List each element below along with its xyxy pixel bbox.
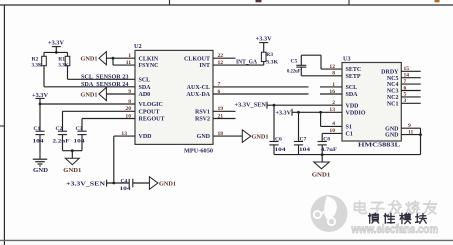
wire C2-C3 ground rail <box>63 150 83 152</box>
svg-text:GND: GND <box>33 168 48 174</box>
capacitor C6 104 <box>269 105 285 154</box>
svg-text:+3.3V: +3.3V <box>256 37 273 43</box>
wire +3.3V to resistors <box>44 51 68 53</box>
wire INT pin12 to INT_GA <box>213 64 264 66</box>
svg-text:SETC: SETC <box>346 67 362 73</box>
wire U3 SDA pin16 stub <box>320 93 342 95</box>
wire VLOGIC pin8 <box>40 103 135 105</box>
svg-text:C6: C6 <box>275 137 282 143</box>
wire DRDY pin15 stub <box>401 70 420 72</box>
capacitor C3 104 <box>74 119 87 151</box>
svg-text:SDA: SDA <box>346 92 359 98</box>
svg-text:GND1: GND1 <box>81 57 98 63</box>
svg-text:MPU-6050: MPU-6050 <box>184 148 213 154</box>
node junction S1 branch <box>319 111 322 114</box>
svg-text:R3: R3 <box>266 52 273 58</box>
IC U3 HMC5883L <box>329 56 413 149</box>
svg-text:GND1: GND1 <box>312 172 331 178</box>
wire CLKIN pin1 <box>113 57 135 59</box>
capacitor C5 0.22uF <box>287 58 306 74</box>
svg-text:+3.3V: +3.3V <box>48 40 65 46</box>
svg-text:C7: C7 <box>300 137 307 143</box>
svg-text:C4: C4 <box>121 178 128 184</box>
svg-text:C8: C8 <box>323 137 330 143</box>
svg-text:SDA: SDA <box>139 85 152 91</box>
svg-text:C5: C5 <box>291 58 298 64</box>
wire AD0 pin9 <box>106 93 135 95</box>
svg-text:REGOUT: REGOUT <box>139 117 165 123</box>
svg-text:VDD: VDD <box>139 134 153 140</box>
node junction pin1 <box>112 57 115 60</box>
svg-text:AD0: AD0 <box>139 92 151 98</box>
svg-text:CLKIN: CLKIN <box>139 56 159 62</box>
svg-text:CLKOUT: CLKOUT <box>184 56 210 62</box>
svg-text:SCL: SCL <box>346 85 358 91</box>
wire U2 GND pin18 <box>213 135 242 137</box>
title guan-xing-mo-kuai (inertial module) <box>369 213 427 224</box>
svg-text:GND1: GND1 <box>81 92 98 98</box>
wire AUX-DA pin6 to U3 SDA <box>213 93 309 95</box>
svg-text:U2: U2 <box>134 43 142 50</box>
wire VDD pin13 <box>114 135 135 137</box>
wire AUX-CL pin7 to U3 SCL <box>213 86 309 88</box>
node +3.3V_SEN port (left) <box>66 180 129 188</box>
svg-text:VLOGIC: VLOGIC <box>139 102 163 108</box>
svg-text:+3.3V: +3.3V <box>276 110 292 116</box>
capacitor C2 2.2nF <box>53 111 71 150</box>
svg-text:GND1: GND1 <box>252 134 269 140</box>
power +3.3V (top right) <box>256 37 273 43</box>
wire RSV2 pin21 stub <box>213 118 236 120</box>
capacitor C8 4.7uF <box>318 137 338 155</box>
wire U3 SCL pin1 stub <box>320 86 342 88</box>
svg-text:104: 104 <box>299 147 310 153</box>
node junction C4 <box>112 182 115 185</box>
wire NC2 pin5 stub <box>401 96 420 98</box>
wire R1 to SCL_SENSOR net <box>67 66 69 80</box>
svg-text:www.elecfans.com: www.elecfans.com <box>351 224 438 236</box>
node junction ground rail <box>71 149 74 152</box>
power +3.3V (left, VLOGIC) <box>32 93 49 104</box>
ground GND1 flag for U2 pins 1,11 <box>81 52 114 65</box>
svg-text:HMC5883L: HMC5883L <box>358 143 400 149</box>
svg-text:SETP: SETP <box>346 74 361 80</box>
watermark elecfans logo <box>311 195 348 232</box>
svg-text:104: 104 <box>74 138 85 144</box>
svg-text:+3.3V_SEN: +3.3V_SEN <box>235 103 267 109</box>
svg-text:GND: GND <box>197 134 211 140</box>
svg-text:NC2: NC2 <box>387 95 399 101</box>
svg-text:C2: C2 <box>56 126 63 132</box>
wire +3.3V_SEN to U3 VDD pin2 <box>267 104 342 106</box>
svg-text:VDD: VDD <box>346 103 360 109</box>
node +3.3V_SEN port (right) <box>235 102 268 109</box>
svg-text:C1: C1 <box>34 126 41 132</box>
svg-text:GND1: GND1 <box>63 168 81 174</box>
wire CPOUT pin20 <box>63 110 136 112</box>
wire S1 pin4 <box>320 112 322 126</box>
node junction C1/+3.3V <box>39 103 42 106</box>
wire R2 to SDA_SENSOR net <box>43 66 45 87</box>
svg-text:SCL: SCL <box>139 77 151 83</box>
wire U3 GND pin9 <box>401 127 420 129</box>
power +3.3V (right) <box>276 109 293 117</box>
wire NC5 pin14 stub <box>401 77 420 79</box>
svg-text:RSV2: RSV2 <box>195 117 210 123</box>
wire U3 GND pin11 <box>401 134 420 136</box>
wire CLKOUT pin22 stub <box>213 57 236 59</box>
node junction at +3.3V divider <box>55 51 58 54</box>
node junction GND return <box>419 133 422 136</box>
svg-text:4.7uF: 4.7uF <box>321 147 338 153</box>
svg-text:3.3K: 3.3K <box>32 63 43 69</box>
svg-text:FSYNC: FSYNC <box>139 63 159 69</box>
svg-text:104: 104 <box>275 147 286 153</box>
svg-text:0.22uF: 0.22uF <box>287 69 301 75</box>
svg-text:NC3: NC3 <box>387 89 399 95</box>
IC U2 MPU-6050 <box>121 43 223 154</box>
svg-text:NC4: NC4 <box>387 82 399 88</box>
svg-text:INT: INT <box>199 63 210 69</box>
svg-text:INT_GA: INT_GA <box>236 60 258 66</box>
svg-text:DRDY: DRDY <box>381 69 399 75</box>
svg-text:S1: S1 <box>346 125 352 131</box>
capacitor C7 104 <box>294 112 310 154</box>
svg-text:NC1: NC1 <box>387 101 399 107</box>
svg-text:AUX-CL: AUX-CL <box>187 85 210 91</box>
svg-text:3.3K: 3.3K <box>266 59 279 65</box>
wire C1 pin10 to C8 <box>322 132 342 134</box>
ground GND1 (below C2 C3) <box>63 151 81 174</box>
svg-text:C3: C3 <box>76 126 83 132</box>
svg-text:SCL_SENSOR 23: SCL_SENSOR 23 <box>81 74 128 80</box>
svg-text:2.2nF: 2.2nF <box>53 138 71 144</box>
wire REGOUT pin10 <box>82 118 135 120</box>
svg-text:NC5: NC5 <box>387 76 399 82</box>
wire ground rail C6-C8 to U3 GND <box>274 154 421 156</box>
resistor R3 3.3K <box>261 43 278 66</box>
wire NC3 pin6 stub <box>401 90 420 92</box>
svg-text:GND: GND <box>385 133 399 139</box>
svg-text:SDA_SENSOR 24: SDA_SENSOR 24 <box>81 82 129 88</box>
wire NC4 pin7 stub <box>401 83 420 85</box>
svg-text:C1: C1 <box>346 132 353 138</box>
ground GND1 (below C8) <box>312 155 331 179</box>
wire NC1 pin3 stub <box>401 102 420 104</box>
svg-text:RSV1: RSV1 <box>195 109 210 115</box>
ground GND1 flag at U2 pin18 <box>242 130 268 143</box>
svg-text:AUX-DA: AUX-DA <box>186 92 210 98</box>
svg-text:GND1: GND1 <box>159 181 176 187</box>
capacitor C4 104 <box>120 178 150 192</box>
svg-text:CPOUT: CPOUT <box>139 109 160 115</box>
capacitor C1 104 <box>33 104 45 159</box>
wire C5 top to SETC pin12 <box>300 55 302 65</box>
svg-text:U3: U3 <box>343 56 351 63</box>
svg-text:104: 104 <box>33 138 44 144</box>
wire +3.3V to U3 VDDIO pin13 <box>292 111 342 113</box>
node junction C7 <box>297 111 300 114</box>
watermark text dian-zi-fa-shao-you <box>355 201 437 214</box>
node junction C6 <box>273 104 276 107</box>
ground GND1 flag for U2 pin 9 AD0 <box>81 87 107 100</box>
wire C5 bottom to SETP pin8 <box>300 67 302 76</box>
svg-text:GND: GND <box>385 126 399 132</box>
wire FSYNC pin11 <box>112 58 114 65</box>
svg-text:104: 104 <box>120 186 131 192</box>
ground GND1 flag at C4 <box>149 177 176 190</box>
svg-text:+3.3V_SEN: +3.3V_SEN <box>66 181 106 187</box>
power +3.3V (top left) <box>48 40 65 52</box>
resistor R1 3.3K <box>58 52 70 68</box>
resistor R2 3.3K <box>32 52 47 68</box>
svg-text:VDDIO: VDDIO <box>346 110 366 116</box>
wire RSV1 pin19 stub <box>213 110 236 112</box>
ground GND earth symbol <box>33 159 48 174</box>
node junction GND1 branch <box>321 153 324 156</box>
